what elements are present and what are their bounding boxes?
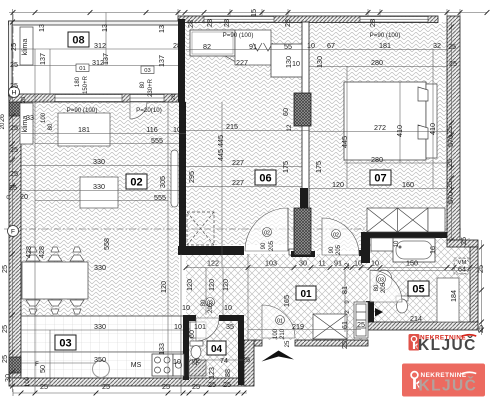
svg-text:175: 175: [281, 161, 290, 173]
headboard: [426, 84, 437, 158]
svg-text:01: 01: [300, 289, 312, 300]
room03 dim y330: [21, 329, 183, 331]
svg-text:03: 03: [59, 338, 71, 350]
right outer wall: [447, 16, 460, 240]
wall above room 01 left part: [178, 246, 244, 255]
svg-text:428: 428: [37, 246, 46, 258]
right wall step: [447, 240, 478, 247]
svg-text:01: 01: [277, 318, 283, 324]
window P=90 over hall: [204, 17, 274, 23]
room02 dim y190: [21, 190, 179, 192]
svg-text:25: 25: [285, 340, 291, 347]
svg-text:330: 330: [93, 182, 105, 191]
toilet 05: [396, 296, 408, 301]
svg-text:10: 10: [292, 59, 300, 68]
bottom dim line 2: [189, 359, 250, 361]
svg-text:25: 25: [10, 145, 18, 154]
grid line horizontal F: [4, 228, 462, 230]
room label 06: [255, 170, 276, 185]
svg-text:330: 330: [93, 157, 105, 166]
room07 dim y66: [309, 66, 447, 68]
svg-text:570: 570: [446, 192, 455, 204]
sink unit: [173, 354, 184, 376]
svg-text:06: 06: [259, 173, 271, 185]
right dim line: [481, 240, 483, 335]
entrance arrow: [262, 351, 295, 362]
chairs top: [26, 247, 84, 261]
room 01 bottom wall left: [254, 340, 262, 346]
room label 07: [370, 170, 391, 185]
svg-text:25: 25: [242, 355, 250, 364]
svg-text:02: 02: [333, 232, 339, 238]
svg-text:555: 555: [151, 136, 163, 145]
svg-text:123: 123: [207, 367, 216, 379]
svg-text:28: 28: [21, 97, 27, 103]
room07 dim y163: [344, 162, 447, 164]
svg-text:133: 133: [157, 343, 166, 355]
svg-text:02: 02: [130, 177, 142, 189]
wall between 08 and 02 with windows: [9, 94, 179, 102]
kitchen counter line: [21, 351, 183, 353]
svg-text:61: 61: [340, 321, 349, 329]
svg-text:10: 10: [394, 240, 400, 247]
svg-text:F: F: [11, 229, 15, 236]
left outer wall: [9, 96, 21, 378]
ticks left: [10, 20, 15, 25]
shower cabinet 05: [437, 278, 459, 322]
svg-text:88: 88: [223, 369, 232, 377]
room 02/03 living floor: [21, 102, 179, 316]
room02 dim y165: [21, 165, 179, 167]
svg-text:28: 28: [171, 94, 177, 100]
shaft block lower: [294, 208, 311, 255]
dining table: [22, 262, 88, 299]
svg-text:330: 330: [94, 322, 106, 331]
bed room 07: [344, 82, 426, 160]
door 06 arc: [245, 208, 288, 251]
svg-text:60: 60: [281, 108, 290, 116]
balcony left rail: [9, 21, 13, 96]
hall 06 closet right: [271, 44, 302, 77]
room label 05: [408, 281, 429, 296]
room07 dim y188: [309, 188, 447, 190]
svg-text:137: 137: [157, 55, 166, 67]
svg-text:100: 100: [25, 376, 31, 387]
klima box room 02: [20, 103, 33, 144]
svg-text:P=90 (100): P=90 (100): [370, 32, 401, 39]
grid line vertical A: [12, 14, 14, 396]
svg-text:205: 205: [269, 240, 275, 251]
svg-text:410: 410: [395, 125, 404, 137]
left wall pier top: [9, 96, 21, 116]
svg-text:25: 25: [448, 42, 456, 51]
svg-text:25: 25: [9, 183, 17, 192]
room 07 bedroom floor: [309, 22, 447, 238]
svg-text:25: 25: [9, 43, 18, 51]
pillow 2: [418, 125, 428, 139]
svg-text:25: 25: [193, 358, 199, 365]
svg-text:305: 305: [158, 176, 167, 188]
svg-text:08: 08: [72, 35, 84, 47]
room 04 left wall: [183, 315, 189, 380]
room07 dim y131: [309, 131, 447, 133]
svg-text:10: 10: [354, 259, 362, 268]
svg-text:80: 80: [140, 81, 146, 88]
vertical chain x181: [180, 254, 182, 393]
shoe cabinet 01: [313, 314, 347, 339]
svg-text:175: 175: [314, 161, 323, 173]
svg-text:25: 25: [459, 237, 468, 245]
svg-text:25: 25: [10, 60, 18, 69]
svg-text:130: 130: [284, 56, 293, 68]
door marker wc: [206, 298, 215, 307]
svg-text:H: H: [12, 90, 17, 97]
bottom outer wall: [9, 378, 247, 386]
svg-text:10: 10: [182, 303, 190, 312]
hall 06 niche: [235, 30, 271, 65]
svg-text:295: 295: [187, 171, 196, 183]
shaft wall 06/07: [302, 22, 309, 255]
room02 dim y130: [21, 133, 186, 135]
svg-text:205: 205: [381, 282, 387, 293]
svg-text:181: 181: [379, 41, 391, 50]
svg-text:120: 120: [185, 279, 194, 291]
room 06 hall floor: [185, 22, 302, 245]
svg-text:90: 90: [261, 242, 267, 249]
room label 01: [296, 286, 316, 300]
svg-text:12: 12: [287, 124, 293, 131]
svg-text:55: 55: [284, 42, 292, 51]
svg-text:25: 25: [445, 159, 454, 167]
svg-text:67: 67: [327, 41, 335, 50]
svg-text:100: 100: [273, 328, 279, 339]
svg-text:227: 227: [236, 58, 248, 67]
svg-text:KLJUČ: KLJUČ: [419, 377, 478, 395]
dresser room 07: [371, 238, 415, 251]
svg-text:137: 137: [101, 53, 110, 65]
svg-text:272: 272: [374, 123, 386, 132]
room03 dim y363: [21, 362, 96, 364]
svg-text:28: 28: [222, 19, 231, 27]
svg-text:558: 558: [102, 238, 111, 250]
svg-text:215: 215: [226, 122, 238, 131]
svg-text:28: 28: [173, 41, 181, 50]
svg-text:74: 74: [220, 356, 228, 365]
bath door arc: [370, 270, 402, 302]
svg-text:25: 25: [162, 382, 170, 391]
room06 vertical dim line: [221, 102, 223, 267]
svg-text:445: 445: [340, 136, 349, 148]
hatched block 04: [189, 360, 206, 376]
door marker 03 window: [141, 66, 154, 74]
svg-text:25: 25: [340, 341, 349, 349]
room 05 bath floor: [370, 238, 470, 322]
ticks bottom: [19, 391, 24, 396]
pillow 1: [418, 87, 428, 101]
svg-text:10: 10: [174, 322, 182, 331]
door06 stub: [289, 249, 295, 255]
room01 dim y329: [248, 329, 361, 331]
svg-text:10: 10: [224, 303, 232, 312]
room label 03: [55, 335, 76, 350]
svg-text:25: 25: [445, 181, 454, 189]
bath left wall lower stub: [366, 301, 374, 330]
svg-text:VM: VM: [458, 260, 467, 266]
svg-text:26: 26: [0, 114, 6, 122]
washbasin: [376, 270, 392, 290]
wardrobe room 07: [367, 208, 445, 232]
top dim line: [9, 12, 487, 14]
svg-text:25: 25: [476, 325, 485, 333]
svg-text:02: 02: [264, 230, 270, 236]
strip below bedroom: [309, 238, 361, 251]
bottom dim line: [13, 392, 247, 394]
svg-text:25: 25: [476, 265, 485, 273]
svg-text:klima: klima: [20, 116, 29, 133]
horizontal chain y267: [186, 267, 478, 269]
svg-text:150+R: 150+R: [83, 75, 89, 94]
svg-text:280: 280: [371, 155, 383, 164]
sideboard room 02: [58, 113, 110, 146]
room 04 top wall right: [219, 315, 244, 321]
room07 dim y49: [309, 49, 447, 51]
svg-text:445: 445: [216, 149, 225, 161]
svg-text:25: 25: [192, 382, 200, 391]
svg-text:10: 10: [307, 41, 315, 50]
wall 07/05: [364, 232, 447, 238]
svg-text:25: 25: [0, 325, 9, 333]
door marker 02 hall: [263, 228, 272, 237]
svg-text:10: 10: [371, 259, 379, 268]
svg-text:15: 15: [249, 9, 258, 17]
room06 dim y166: [186, 166, 302, 168]
svg-text:13: 13: [37, 24, 46, 32]
room06 dim y186: [186, 186, 302, 188]
svg-text:91: 91: [334, 259, 342, 268]
wall 08/06 vertical: [178, 19, 185, 102]
svg-text:25: 25: [0, 265, 9, 273]
grid marker F: [8, 226, 19, 237]
shaft block upper: [294, 93, 311, 126]
svg-text:KLJUČ: KLJUČ: [418, 336, 477, 354]
svg-text:227: 227: [232, 158, 244, 167]
ticks right chain: [449, 25, 454, 30]
svg-text:klima: klima: [20, 39, 29, 56]
hall 06 dashed shaft box: [187, 212, 214, 245]
svg-text:25: 25: [0, 355, 9, 363]
toilet 04: [190, 341, 203, 346]
room 04 right wall: [238, 315, 244, 385]
svg-text:16: 16: [428, 246, 437, 254]
svg-text:50: 50: [38, 365, 47, 373]
svg-text:181: 181: [78, 125, 90, 134]
svg-text:01: 01: [79, 66, 85, 72]
entrance door arc: [262, 305, 295, 338]
svg-text:80: 80: [201, 299, 207, 306]
radiator room 02: [171, 150, 178, 207]
svg-text:28: 28: [205, 19, 214, 27]
svg-text:210: 210: [280, 328, 286, 339]
svg-text:120: 120: [207, 279, 216, 291]
balcony door arc: [130, 102, 147, 119]
svg-text:90: 90: [329, 246, 335, 253]
svg-text:25: 25: [357, 320, 365, 329]
svg-text:280: 280: [371, 58, 383, 67]
bath left wall: [361, 232, 370, 263]
washbasin 04: [190, 322, 206, 338]
svg-text:25: 25: [449, 59, 457, 68]
svg-text:25: 25: [10, 81, 18, 90]
svg-text:137: 137: [38, 53, 47, 65]
room label 02: [126, 174, 147, 189]
room03 top line: [21, 315, 183, 317]
svg-text:60: 60: [187, 330, 196, 338]
hall 06 wardrobe: [190, 30, 235, 56]
svg-text:165: 165: [282, 295, 291, 307]
svg-text:32: 32: [433, 41, 441, 50]
svg-text:0: 0: [6, 195, 9, 201]
room06 top dim y49: [186, 49, 309, 51]
top window wall band: [178, 16, 438, 23]
svg-text:20: 20: [0, 122, 6, 129]
shaft stem: [300, 188, 308, 208]
room06 dim y130: [186, 130, 309, 132]
door 07 arc: [322, 218, 359, 255]
logo box lower: [402, 364, 485, 397]
svg-text:130: 130: [315, 56, 324, 68]
svg-text:81: 81: [340, 286, 349, 294]
wall stub right of 07 door: [359, 250, 370, 256]
ticks top: [11, 10, 16, 15]
svg-text:13: 13: [100, 24, 109, 32]
svg-text:91: 91: [249, 42, 257, 51]
svg-text:MS: MS: [131, 362, 142, 369]
grid marker H: [9, 87, 20, 98]
washing machine VM: [454, 258, 470, 274]
room 04 wc floor: [189, 321, 238, 378]
svg-text:230+R: 230+R: [148, 78, 154, 97]
svg-text:555: 555: [154, 193, 166, 202]
svg-text:28: 28: [283, 19, 292, 27]
logo watermark upper: [409, 334, 477, 354]
svg-text:205: 205: [208, 302, 214, 313]
bottom step wall: [244, 340, 254, 386]
wall 02/06 vertical: [179, 102, 186, 254]
svg-text:82: 82: [203, 42, 211, 51]
door marker 02 bed: [332, 230, 341, 239]
vertical chain x248: [247, 254, 249, 340]
svg-text:P=90 (100): P=90 (100): [223, 32, 254, 39]
svg-text:205: 205: [336, 244, 342, 255]
klima box room 08: [20, 27, 33, 65]
svg-text:214: 214: [410, 314, 422, 323]
top verticals small: [446, 9, 448, 22]
svg-text:184: 184: [449, 290, 458, 302]
svg-text:80: 80: [48, 123, 54, 130]
room07 vertical dim lines: [346, 66, 348, 188]
svg-text:04: 04: [211, 344, 223, 355]
svg-text:428: 428: [24, 246, 33, 258]
svg-text:330: 330: [94, 263, 106, 272]
room02 inner dim verticals: [34, 49, 36, 393]
svg-text:160: 160: [402, 180, 414, 189]
svg-text:180: 180: [75, 76, 81, 87]
room 03 kitchen floor: [21, 316, 183, 378]
svg-text:120: 120: [159, 281, 168, 293]
door marker 03 bath: [377, 275, 386, 284]
right outer wall lower: [470, 247, 478, 323]
svg-text:570: 570: [446, 135, 455, 147]
svg-text:227: 227: [232, 178, 244, 187]
svg-text:103: 103: [265, 259, 277, 268]
room01 vertical dim lines: [344, 270, 346, 332]
svg-text:25: 25: [208, 380, 216, 389]
svg-text:25: 25: [223, 380, 231, 389]
table room 02: [80, 177, 118, 208]
svg-text:28: 28: [368, 19, 377, 27]
svg-text:30: 30: [3, 374, 12, 382]
balcony top rail: [9, 21, 180, 25]
svg-text:30: 30: [299, 259, 307, 268]
svg-text:20: 20: [20, 192, 28, 201]
door marker entry: [276, 316, 285, 325]
room label 04: [207, 341, 226, 355]
svg-text:219: 219: [292, 322, 304, 331]
svg-text:116: 116: [146, 125, 157, 134]
window P=90 over bedroom: [360, 17, 428, 23]
svg-text:120: 120: [332, 180, 344, 189]
svg-text:25: 25: [102, 382, 110, 391]
svg-text:25: 25: [445, 126, 454, 134]
svg-text:28: 28: [186, 20, 195, 28]
svg-text:03: 03: [378, 277, 384, 283]
bathtub: [393, 238, 435, 262]
svg-text:100: 100: [41, 112, 47, 123]
room 01 entry floor: [186, 254, 368, 340]
svg-text:10: 10: [173, 357, 181, 366]
svg-text:13: 13: [157, 25, 166, 33]
bath bottom wall: [368, 322, 478, 330]
svg-text:05: 05: [412, 284, 424, 296]
room label 08: [68, 32, 89, 47]
svg-text:25: 25: [10, 123, 18, 132]
room 04 top wall left: [183, 315, 196, 321]
svg-text:P=20(10): P=20(10): [136, 107, 162, 114]
svg-text:11: 11: [318, 259, 325, 268]
svg-text:120: 120: [221, 279, 230, 291]
bath dim y270: [370, 270, 470, 272]
room 01 bottom wall right: [295, 340, 368, 346]
svg-text:25: 25: [10, 169, 18, 178]
stove: [152, 354, 173, 376]
left dim line: [12, 9, 14, 392]
svg-text:25: 25: [40, 382, 48, 391]
room08 dim lines: [13, 48, 179, 50]
chairs bottom: [26, 300, 84, 314]
svg-text:35: 35: [226, 322, 234, 331]
svg-text:07: 07: [374, 173, 386, 185]
door marker 01 window: [76, 64, 89, 72]
svg-text:03: 03: [144, 68, 150, 74]
left wall pier bottom: [9, 357, 21, 373]
svg-text:10: 10: [173, 125, 181, 134]
cabinet 01 right: [354, 302, 368, 338]
ticks y267: [184, 265, 189, 270]
svg-text:12: 12: [345, 262, 351, 269]
bath door arrow: [375, 308, 383, 317]
svg-text:350: 350: [94, 355, 106, 364]
svg-text:445: 445: [216, 135, 225, 147]
